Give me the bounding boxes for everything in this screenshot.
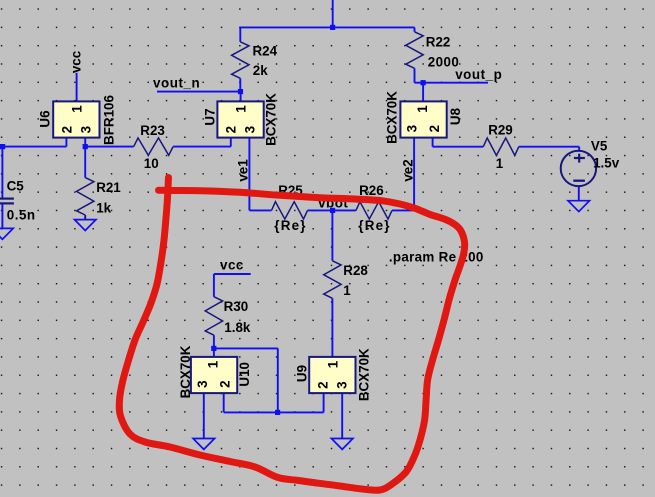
svg-text:10: 10 bbox=[144, 156, 159, 171]
svg-text:1: 1 bbox=[496, 156, 504, 171]
svg-text:R30: R30 bbox=[224, 299, 249, 314]
svg-text:1k: 1k bbox=[96, 201, 111, 216]
svg-text:3: 3 bbox=[404, 125, 419, 132]
svg-text:3: 3 bbox=[335, 381, 350, 388]
svg-text:.param Re 200: .param Re 200 bbox=[389, 249, 484, 264]
svg-text:V5: V5 bbox=[591, 139, 608, 154]
svg-text:BCX70K: BCX70K bbox=[357, 348, 372, 401]
svg-text:1: 1 bbox=[234, 105, 249, 113]
svg-text:BFR106: BFR106 bbox=[101, 95, 116, 145]
svg-text:2: 2 bbox=[224, 126, 239, 133]
svg-text:1.8k: 1.8k bbox=[224, 320, 251, 335]
svg-text:C5: C5 bbox=[7, 179, 25, 194]
svg-text:1: 1 bbox=[325, 360, 340, 368]
svg-text:R29: R29 bbox=[488, 122, 513, 137]
svg-text:2k: 2k bbox=[253, 63, 268, 78]
svg-text:2: 2 bbox=[427, 125, 442, 132]
svg-text:3: 3 bbox=[195, 380, 210, 387]
svg-text:U6: U6 bbox=[38, 110, 53, 127]
svg-text:R26: R26 bbox=[359, 183, 384, 198]
svg-text:3: 3 bbox=[79, 126, 94, 133]
svg-text:{Re}: {Re} bbox=[274, 218, 306, 233]
svg-text:vout_n: vout_n bbox=[153, 75, 200, 90]
svg-text:2: 2 bbox=[60, 126, 75, 133]
svg-text:1: 1 bbox=[343, 283, 351, 298]
svg-text:R28: R28 bbox=[343, 263, 368, 278]
svg-text:1: 1 bbox=[206, 360, 221, 368]
svg-text:ve1: ve1 bbox=[236, 159, 251, 182]
svg-text:vcc: vcc bbox=[220, 258, 244, 273]
svg-text:2: 2 bbox=[316, 381, 331, 388]
svg-text:1: 1 bbox=[415, 105, 430, 113]
svg-text:R23: R23 bbox=[140, 123, 165, 138]
svg-text:0.5n: 0.5n bbox=[7, 208, 36, 223]
svg-text:1.5v: 1.5v bbox=[593, 155, 620, 170]
svg-text:vout_p: vout_p bbox=[455, 67, 502, 82]
svg-text:U7: U7 bbox=[203, 108, 218, 125]
svg-text:BCX70K: BCX70K bbox=[385, 91, 400, 144]
svg-text:BCX70K: BCX70K bbox=[178, 345, 193, 398]
svg-text:2: 2 bbox=[217, 380, 232, 387]
svg-text:R22: R22 bbox=[426, 35, 451, 50]
svg-text:U10: U10 bbox=[237, 362, 252, 387]
svg-text:R24: R24 bbox=[253, 43, 278, 58]
svg-text:U8: U8 bbox=[448, 107, 463, 125]
svg-text:ve2: ve2 bbox=[401, 159, 416, 181]
svg-text:3: 3 bbox=[243, 126, 258, 133]
svg-text:{Re}: {Re} bbox=[358, 218, 390, 233]
svg-text:1: 1 bbox=[69, 105, 84, 113]
svg-text:vcc: vcc bbox=[69, 50, 84, 73]
svg-text:BCX70K: BCX70K bbox=[264, 93, 279, 146]
svg-text:R21: R21 bbox=[96, 180, 121, 195]
svg-text:U9: U9 bbox=[295, 365, 310, 382]
